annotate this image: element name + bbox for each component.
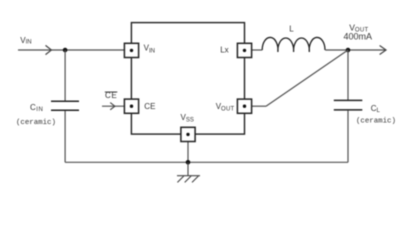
wire L to output node [325,49,348,51]
IC body U1 [131,23,244,135]
wire CL to rail [347,111,349,163]
wire CE input [102,105,125,107]
svg-text:Lx: Lx [220,46,228,55]
ground [177,162,200,182]
svg-text:L: L [289,24,294,33]
pin VOUT square [237,99,251,113]
svg-text:400mA: 400mA [344,32,373,42]
svg-text:(ceramic): (ceramic) [16,119,56,127]
wire VOUT diagonal [266,50,348,106]
pin Lx square [237,43,251,57]
svg-text:CE: CE [144,102,155,111]
capacitor CL [334,100,363,110]
arrow output [380,46,386,55]
arrow input flow [46,45,52,54]
arrow CE flow [110,103,115,110]
wire node to CL [347,50,349,100]
overline of CE [105,91,118,93]
wire VOUT pin lead [252,105,267,107]
wire output arrow [348,49,386,51]
wire VSS stub [187,141,189,162]
wire ground rail [65,161,348,163]
wire VIN input [18,49,125,51]
wire CIN to rail [64,111,66,162]
pin VIN square [124,43,138,57]
node output junction [346,48,351,53]
wire junction to CIN [64,50,66,101]
pin VSS square [181,127,195,141]
wire Lx lead [252,49,263,51]
capacitor CIN [51,101,79,110]
svg-text:CE: CE [105,91,117,100]
node VSS-rail junction [186,160,191,165]
node input junction [63,48,68,53]
svg-text:(ceramic): (ceramic) [356,118,396,126]
pin CE square [124,99,138,113]
inductor L [262,37,325,51]
